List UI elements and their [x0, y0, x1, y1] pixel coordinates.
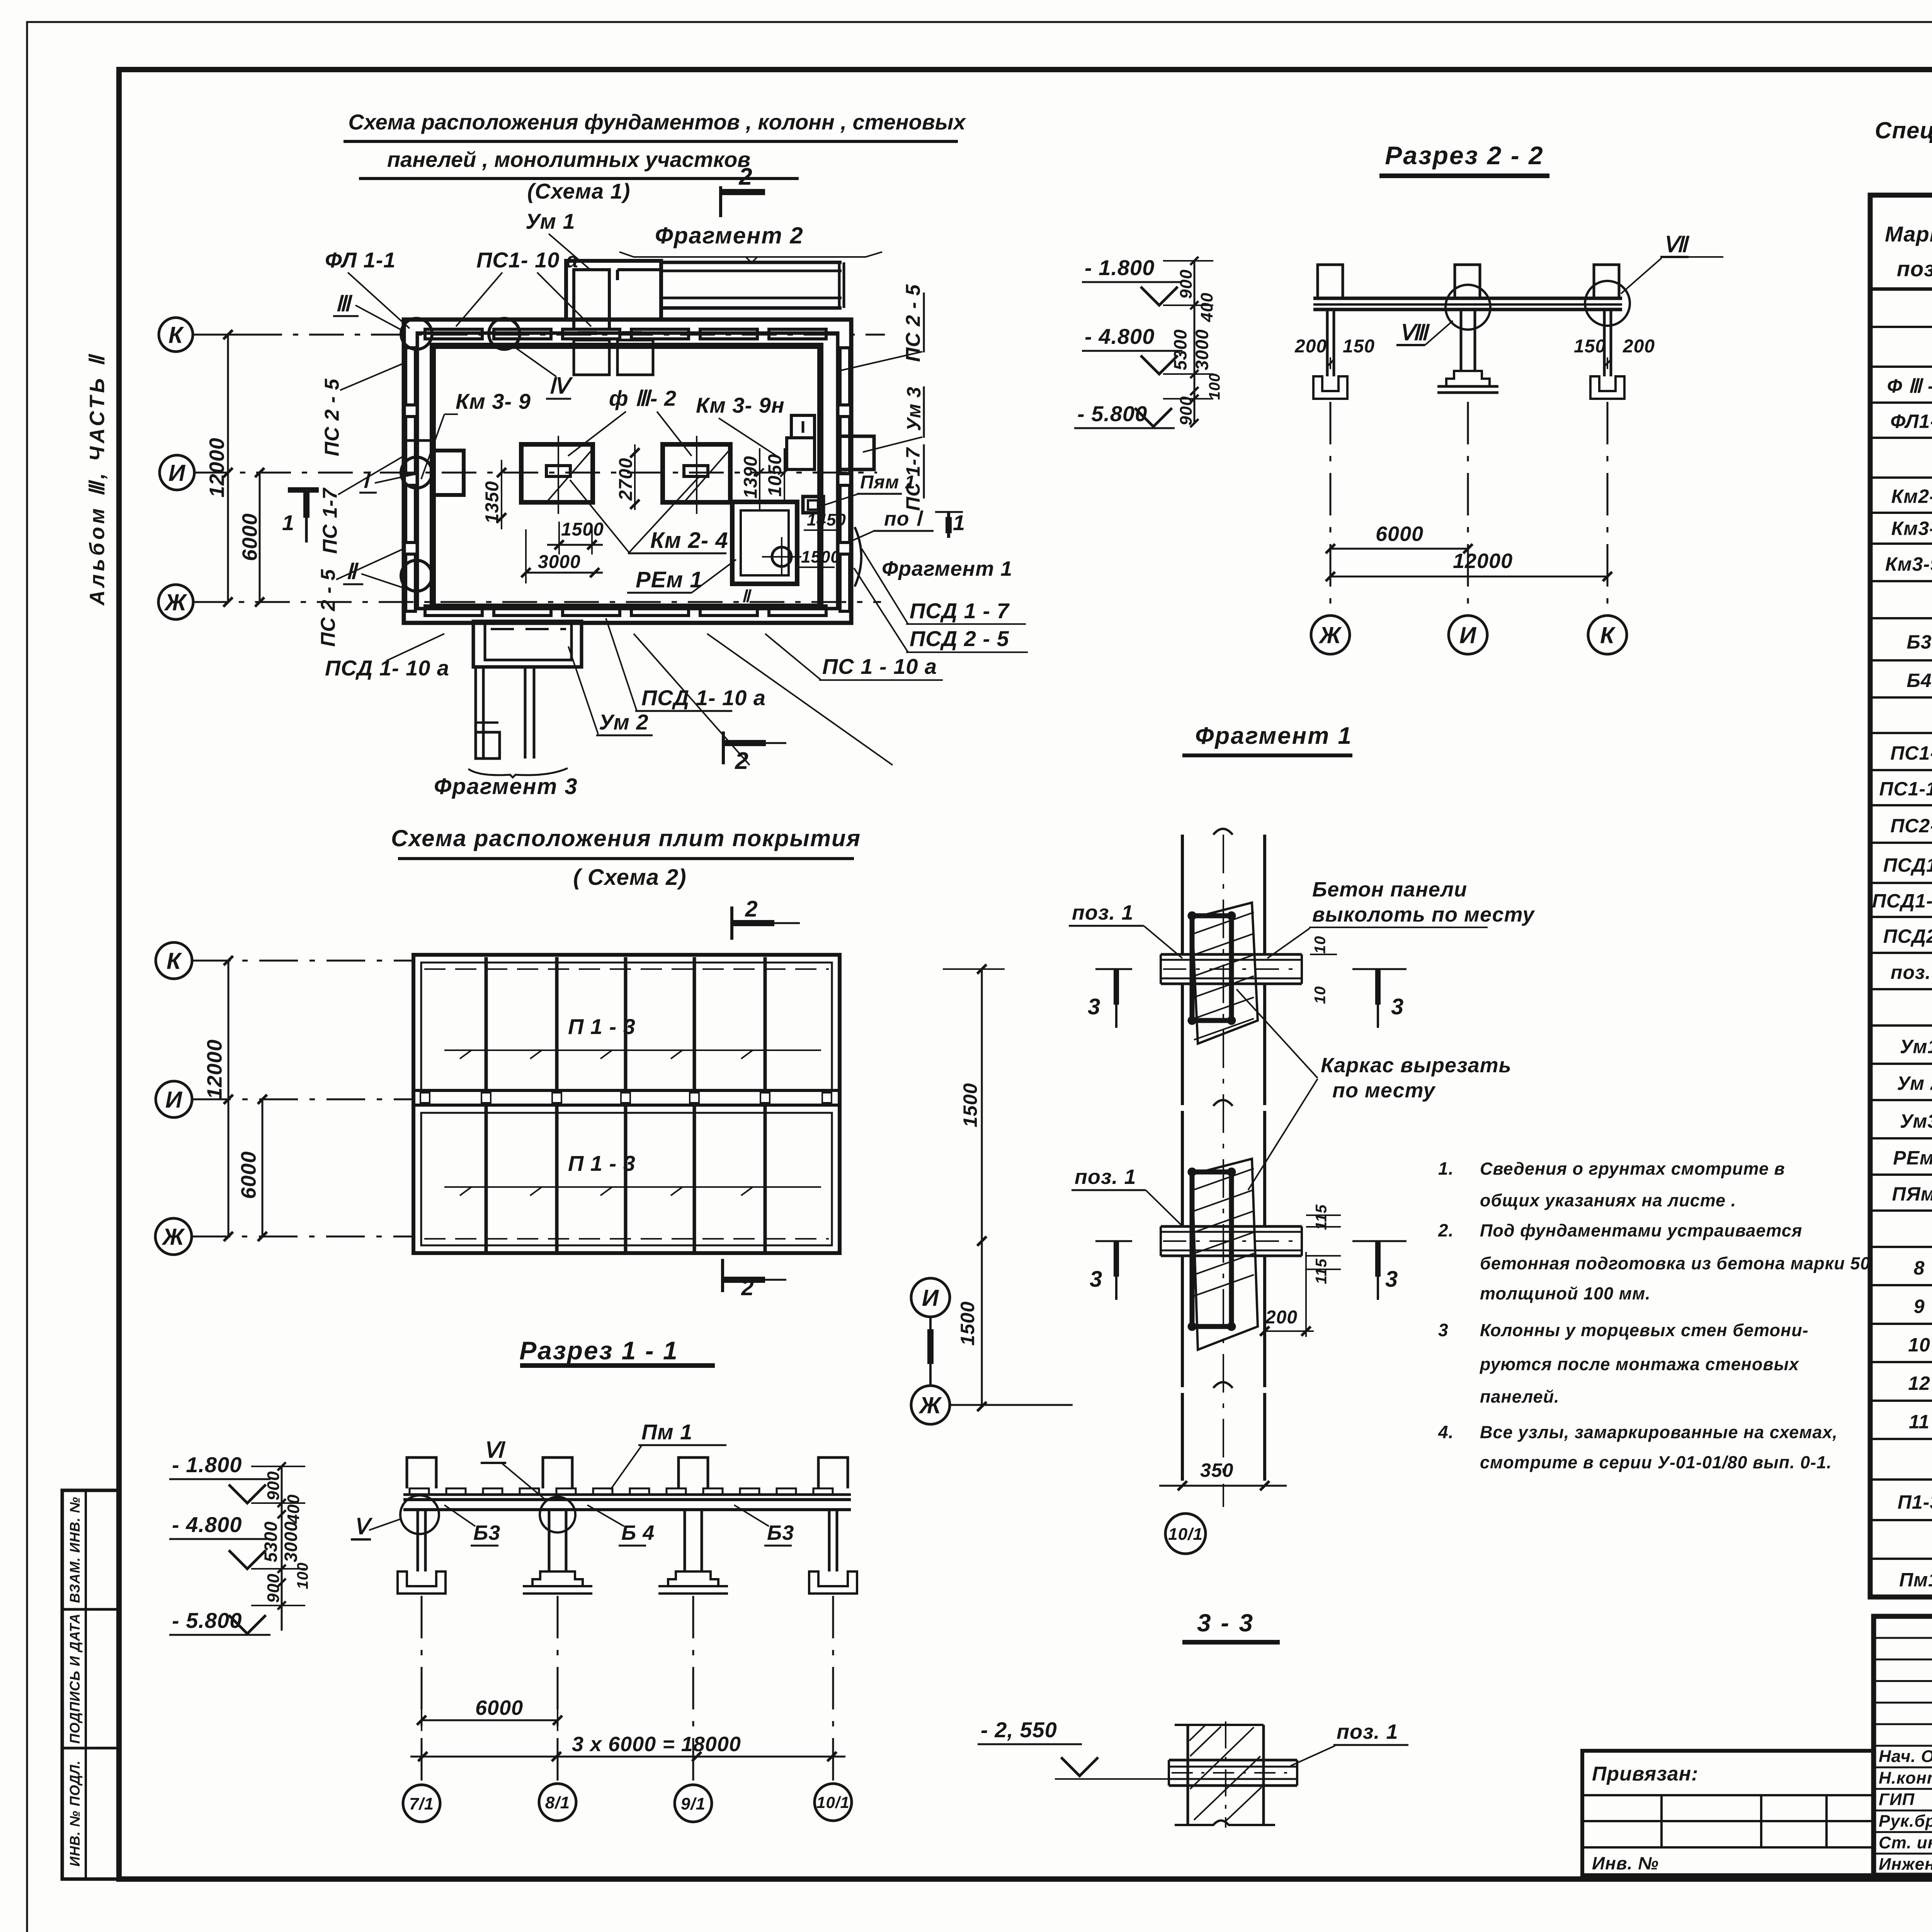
detail circles r1	[400, 1495, 439, 1534]
section mark 2 top (schema 2)	[730, 906, 733, 940]
svg-text:ПСД 1 - 7: ПСД 1 - 7	[910, 599, 1010, 623]
svg-text:Ⅷ: Ⅷ	[1399, 320, 1430, 345]
svg-text:Пям 1: Пям 1	[860, 472, 915, 493]
left wall below beam (Zh)	[1326, 310, 1329, 376]
svg-text:ПС 2 - 5: ПС 2 - 5	[902, 284, 925, 362]
svg-text:Каркас вырезать: Каркас вырезать	[1321, 1054, 1512, 1077]
svg-text:Ф Ⅲ - 2: Ф Ⅲ - 2	[1887, 375, 1932, 397]
svg-text:Ⅵ: Ⅵ	[483, 1438, 506, 1462]
svg-text:Км 3- 9: Км 3- 9	[456, 389, 531, 413]
svg-text:Все узлы, замаркированные на с: Все узлы, замаркированные на схемах,	[1480, 1422, 1838, 1442]
section mark 1 left	[288, 487, 319, 493]
svg-text:И: И	[922, 1285, 939, 1311]
svg-text:350: 350	[1200, 1459, 1233, 1481]
svg-text:Сведения о грунтах смотрите в: Сведения о грунтах смотрите в	[1480, 1159, 1785, 1179]
wall stubs r1	[407, 1458, 436, 1488]
svg-text:П 1 - 3: П 1 - 3	[568, 1014, 636, 1039]
section marks 3 (lower pair)	[1095, 1240, 1132, 1242]
svg-text:10/1: 10/1	[816, 1793, 850, 1811]
section mark 2 top	[719, 186, 722, 217]
svg-text:поз. 1: поз. 1	[1075, 1165, 1136, 1189]
joint beam band	[1161, 953, 1302, 956]
axis I schema2	[156, 1081, 192, 1117]
corridor rails right of top extension	[661, 261, 842, 264]
svg-text:1500: 1500	[959, 1083, 981, 1127]
svg-text:ГИП: ГИП	[1879, 1790, 1915, 1809]
column footing F III-2 left	[521, 444, 593, 502]
svg-text:400: 400	[1197, 293, 1216, 322]
axes to circles r1	[421, 1596, 423, 1784]
svg-text:бетонная подготовка из бетона: бетонная подготовка из бетона марки 50	[1480, 1253, 1870, 1273]
svg-text:РЕм1: РЕм1	[1893, 1147, 1932, 1169]
svg-text:Разрез 1 - 1: Разрез 1 - 1	[519, 1336, 679, 1365]
joint beam band	[1161, 1225, 1302, 1228]
svg-text:2: 2	[735, 748, 748, 774]
svg-text:И: И	[168, 460, 186, 486]
svg-text:10/1: 10/1	[1168, 1525, 1203, 1544]
3-3 beam band	[1169, 1759, 1297, 1762]
svg-text:Км 2- 4: Км 2- 4	[650, 528, 728, 553]
svg-text:150: 150	[1574, 336, 1606, 357]
circle 10/1 fragment	[1165, 1514, 1206, 1554]
section 2-2 beam	[1313, 297, 1622, 300]
fragment 3 shaft	[474, 667, 477, 759]
svg-text:2: 2	[745, 896, 758, 922]
table outer border	[1870, 195, 1932, 1597]
svg-text:Ум 2: Ум 2	[1897, 1073, 1932, 1094]
svg-text:900: 900	[264, 1471, 283, 1500]
privyazan block	[1582, 1751, 1874, 1875]
svg-text:Б4: Б4	[1906, 670, 1932, 691]
svg-text:400: 400	[284, 1494, 303, 1524]
svg-text:К: К	[168, 322, 184, 348]
table row lines	[1870, 326, 1932, 328]
svg-text:10: 10	[1311, 986, 1328, 1004]
svg-text:Км3-9: Км3-9	[1891, 518, 1932, 539]
svg-text:Разрез 2 - 2: Разрез 2 - 2	[1385, 141, 1544, 170]
wall panels bottom	[425, 606, 482, 616]
svg-text:( Схема 2): ( Схема 2)	[573, 865, 686, 890]
middle band	[413, 1089, 840, 1092]
axis Zh	[158, 585, 193, 619]
detail circle VIII	[1446, 285, 1490, 330]
svg-text:РЕм 1: РЕм 1	[636, 567, 703, 592]
svg-text:5300: 5300	[261, 1521, 281, 1562]
svg-text:- 4.800: - 4.800	[172, 1512, 242, 1537]
svg-text:по Ⅰ: по Ⅰ	[884, 508, 923, 530]
svg-text:100: 100	[294, 1562, 311, 1589]
K U-footing	[1590, 376, 1624, 399]
svg-text:ФЛ 1-1: ФЛ 1-1	[325, 248, 396, 272]
svg-text:Спецификация к схемам распо: Спецификация к схемам расположения конст…	[1875, 117, 1932, 143]
left stamp boxes	[62, 1490, 119, 1879]
svg-text:10: 10	[1908, 1334, 1930, 1355]
small joint marks middle band	[420, 1093, 430, 1103]
center column (I)	[1460, 310, 1463, 371]
rebar cage	[1192, 916, 1231, 1020]
svg-text:Колонны у торцевых стен бетони: Колонны у торцевых стен бетони-	[1480, 1320, 1809, 1340]
svg-text:Ст. инж.: Ст. инж.	[1879, 1833, 1932, 1852]
svg-text:ПСД 2 - 5: ПСД 2 - 5	[910, 626, 1009, 651]
wall stubs above beam	[1318, 265, 1343, 298]
svg-text:Н.контр.: Н.контр.	[1879, 1769, 1932, 1787]
svg-text:ПСД 1- 10 а: ПСД 1- 10 а	[641, 685, 766, 710]
svg-text:панелей.: панелей.	[1480, 1387, 1560, 1406]
pit PYam1	[803, 497, 823, 513]
svg-text:ИНВ. № ПОДЛ.: ИНВ. № ПОДЛ.	[67, 1760, 83, 1866]
dim 12000 schema2	[228, 961, 230, 1236]
slab with teeth r1	[403, 1493, 851, 1496]
svg-text:8: 8	[1914, 1257, 1925, 1279]
beam band r1	[403, 1498, 851, 1501]
svg-text:5300: 5300	[1170, 329, 1190, 370]
svg-text:Ум1: Ум1	[1900, 1036, 1932, 1057]
svg-text:ПЯм1: ПЯм1	[1892, 1183, 1932, 1205]
svg-text:К: К	[167, 948, 182, 974]
svg-text:ПС 1 - 10 а: ПС 1 - 10 а	[822, 654, 937, 679]
svg-text:- 1.800: - 1.800	[172, 1452, 242, 1477]
bottom extension (fragment 3 block Um2)	[473, 621, 582, 667]
svg-text:1390: 1390	[740, 456, 761, 499]
plate grid inner bottom half	[421, 1113, 832, 1245]
axes dash-dot to circles 2-2	[1330, 402, 1332, 616]
top extension (Um1, fragment 2 block)	[566, 261, 661, 320]
axis K schema2	[156, 942, 192, 979]
svg-text:200: 200	[1622, 336, 1655, 357]
wall break marks	[1213, 829, 1233, 835]
svg-text:Привязан:: Привязан:	[1592, 1763, 1698, 1785]
right wall below beam (K)	[1603, 310, 1606, 376]
svg-text:8/1: 8/1	[545, 1793, 570, 1812]
svg-text:1: 1	[953, 510, 965, 535]
svg-text:- 5.800: - 5.800	[1077, 401, 1147, 426]
svg-text:ПСД 1- 10 а: ПСД 1- 10 а	[325, 656, 449, 680]
svg-text:6000: 6000	[238, 513, 261, 561]
footings r1 interior	[532, 1571, 583, 1586]
svg-text:900: 900	[1177, 396, 1196, 425]
svg-text:9/1: 9/1	[681, 1794, 706, 1813]
section mark 1 right	[947, 512, 950, 538]
svg-text:1.: 1.	[1438, 1158, 1454, 1179]
svg-text:Рук.бр.: Рук.бр.	[1879, 1811, 1932, 1830]
svg-text:Пм1: Пм1	[1899, 1569, 1932, 1590]
svg-text:Б3: Б3	[767, 1521, 794, 1544]
svg-text:200: 200	[1294, 336, 1327, 357]
I and Zh circles fragment	[911, 1278, 950, 1317]
3-3 column centerline	[1225, 1721, 1226, 1828]
svg-text:поз. 1: поз. 1	[1891, 962, 1932, 983]
svg-text:Инженер: Инженер	[1879, 1855, 1932, 1874]
corner circles (wall junctions)	[401, 318, 432, 349]
svg-text:1450: 1450	[807, 510, 846, 529]
svg-text:ПС1-7: ПС1-7	[1890, 742, 1932, 764]
svg-text:Нач. ОТП: Нач. ОТП	[1879, 1747, 1932, 1766]
svg-text:3000: 3000	[538, 552, 581, 572]
svg-text:ПС 2 - 5: ПС 2 - 5	[317, 569, 340, 647]
svg-text:И: И	[1459, 622, 1477, 648]
vertical plate dividers	[485, 957, 488, 1089]
svg-text:1500: 1500	[561, 519, 604, 540]
extension inner room	[574, 270, 609, 329]
svg-text:1500: 1500	[801, 548, 840, 566]
svg-text:3: 3	[1385, 1267, 1398, 1292]
svg-text:10: 10	[1311, 936, 1328, 954]
svg-text:ПОДПИСЬ И ДАТА: ПОДПИСЬ И ДАТА	[67, 1613, 83, 1744]
svg-text:П1-3: П1-3	[1898, 1492, 1932, 1513]
section marks 3 (upper pair)	[1095, 968, 1132, 970]
svg-text:11: 11	[1909, 1411, 1930, 1432]
svg-text:Схема расположения фундаментов: Схема расположения фундаментов , колонн …	[348, 110, 966, 134]
svg-text:поз. 1: поз. 1	[1337, 1720, 1398, 1743]
Um3 block right	[839, 436, 874, 469]
svg-text:9: 9	[1914, 1296, 1925, 1317]
svg-text:ПС2-5: ПС2-5	[1890, 815, 1932, 837]
detail circle VII	[1585, 281, 1630, 326]
svg-text:ПСД1-7: ПСД1-7	[1883, 854, 1932, 876]
svg-text:Фрагмент 3: Фрагмент 3	[434, 774, 578, 799]
axis circles 2-2	[1311, 616, 1350, 654]
svg-text:6000: 6000	[475, 1696, 523, 1719]
title block left rows	[1874, 1637, 1932, 1639]
svg-text:3000: 3000	[281, 1521, 301, 1562]
3-3 column hatched	[1187, 1725, 1189, 1825]
svg-text:2.: 2.	[1438, 1220, 1454, 1240]
svg-text:Ж: Ж	[1318, 622, 1342, 648]
section mark 2 bottom	[722, 731, 725, 764]
table header separator	[1870, 287, 1932, 291]
wall panels left	[406, 348, 415, 405]
svg-text:3000: 3000	[1192, 329, 1212, 370]
vertical dim chain 2-2	[1194, 261, 1196, 423]
svg-text:3: 3	[1438, 1320, 1449, 1340]
wall panels right	[840, 348, 850, 405]
svg-text:Км3-9н: Км3-9н	[1885, 553, 1932, 575]
svg-text:Ум 2: Ум 2	[599, 710, 649, 734]
svg-text:ВЗАМ. ИНВ. №: ВЗАМ. ИНВ. №	[67, 1497, 83, 1603]
svg-text:общих указаниях на листе .: общих указаниях на листе .	[1480, 1190, 1736, 1210]
svg-text:3 - 3: 3 - 3	[1197, 1609, 1254, 1637]
svg-text:ПС 1-7: ПС 1-7	[319, 488, 342, 554]
svg-text:Бетон панели: Бетон панели	[1312, 878, 1467, 901]
Zh U-footing	[1313, 376, 1347, 399]
svg-text:3 х 6000 = 18000: 3 х 6000 = 18000	[572, 1733, 741, 1756]
axis circles r1	[403, 1785, 440, 1822]
svg-text:- 4.800: - 4.800	[1085, 324, 1155, 349]
svg-text:Ⅲ: Ⅲ	[335, 291, 353, 316]
svg-text:Марка: Марка	[1885, 222, 1932, 246]
svg-text:И: И	[165, 1087, 183, 1113]
svg-text:150: 150	[1343, 336, 1375, 357]
svg-text:Фрагмент 1: Фрагмент 1	[882, 557, 1012, 580]
columns r1	[548, 1510, 551, 1571]
svg-text:Км2-4: Км2-4	[1891, 486, 1932, 507]
svg-text:ФЛ1-1: ФЛ1-1	[1890, 411, 1932, 432]
inner room thick outline	[433, 346, 820, 607]
svg-text:12000: 12000	[203, 1039, 226, 1099]
svg-text:Схема расположения плит покрыт: Схема расположения плит покрытия	[391, 825, 861, 851]
end walls r1	[417, 1510, 419, 1571]
I column footing steps	[1446, 371, 1490, 386]
fragment center axis	[1223, 835, 1224, 1507]
svg-text:П 1 - 3: П 1 - 3	[568, 1151, 636, 1175]
svg-text:Км 3- 9н: Км 3- 9н	[696, 393, 785, 417]
left protrusion at axis I	[433, 451, 464, 495]
svg-text:3: 3	[1088, 994, 1100, 1019]
svg-text:3: 3	[1391, 994, 1404, 1019]
svg-text:2: 2	[741, 1275, 754, 1300]
svg-text:Инв. №: Инв. №	[1592, 1853, 1659, 1873]
svg-text:6000: 6000	[237, 1151, 260, 1199]
svg-text:Фрагмент 1: Фрагмент 1	[1195, 723, 1352, 749]
vertical dim chain r1	[281, 1466, 283, 1631]
svg-text:ПСД1-10а: ПСД1-10а	[1872, 890, 1932, 912]
svg-text:Фрагмент 2: Фрагмент 2	[655, 223, 804, 248]
svg-text:200: 200	[1265, 1307, 1298, 1328]
axis K	[159, 318, 193, 352]
svg-text:2: 2	[738, 163, 752, 190]
svg-text:Пм 1: Пм 1	[641, 1420, 692, 1444]
svg-text:ПС1- 10 а: ПС1- 10 а	[476, 248, 578, 272]
svg-text:12: 12	[1908, 1372, 1930, 1394]
svg-text:выколоть по месту: выколоть по месту	[1312, 903, 1535, 926]
title block outer	[1874, 1616, 1932, 1875]
svg-text:(Схема 1): (Схема 1)	[527, 179, 631, 203]
svg-text:руются после монтажа стеновых: руются после монтажа стеновых	[1480, 1354, 1799, 1374]
svg-text:- 2, 550: - 2, 550	[981, 1718, 1057, 1742]
REm1 inner dashed	[741, 510, 789, 575]
joint hatched panel	[1192, 903, 1258, 1044]
svg-text:Ум 3: Ум 3	[903, 386, 925, 431]
svg-text:толщиной 100 мм.: толщиной 100 мм.	[1480, 1284, 1651, 1303]
svg-text:- 5.800: - 5.800	[172, 1608, 242, 1633]
svg-text:смотрите в серии У-01-01/80 вы: смотрите в серии У-01-01/80 вып. 0-1.	[1480, 1452, 1832, 1472]
svg-text:Ⅶ: Ⅶ	[1663, 232, 1690, 257]
svg-text:панелей , монолитных участко: панелей , монолитных участков	[387, 147, 750, 172]
svg-text:Ж: Ж	[918, 1393, 942, 1418]
svg-text:поз.: поз.	[1897, 257, 1932, 281]
dim 6000 schema2	[262, 1099, 264, 1236]
extension lower rooms	[574, 340, 609, 375]
svg-text:12000: 12000	[205, 437, 228, 497]
svg-text:ф Ⅲ- 2: ф Ⅲ- 2	[609, 386, 677, 410]
svg-text:К: К	[1600, 622, 1616, 648]
plate grid outer	[413, 955, 840, 1253]
svg-text:1350: 1350	[482, 481, 502, 524]
wall panels top	[425, 329, 482, 339]
svg-text:Ум 1: Ум 1	[526, 209, 575, 233]
svg-text:6000: 6000	[1376, 522, 1423, 546]
joint hatched panel	[1192, 1159, 1258, 1350]
plate grid inner dashed top half	[421, 963, 832, 1090]
svg-text:7/1: 7/1	[409, 1794, 434, 1813]
svg-text:по месту: по месту	[1332, 1079, 1436, 1102]
svg-text:3: 3	[1090, 1267, 1102, 1292]
reservoir REm1	[732, 502, 797, 584]
svg-text:поз. 1: поз. 1	[1072, 901, 1134, 924]
Km3-9n blocks	[791, 415, 815, 438]
fragment left dim 1500/1500	[981, 969, 983, 1406]
svg-text:Ж: Ж	[164, 590, 188, 616]
svg-text:Под фундаментами устраивается: Под фундаментами устраивается	[1480, 1221, 1802, 1240]
svg-text:Ж: Ж	[162, 1224, 185, 1250]
section mark 2 bottom (schema2)	[721, 1259, 724, 1292]
building outer wall	[404, 320, 851, 623]
axis Zh schema2	[155, 1218, 192, 1255]
dim 12000	[227, 335, 229, 602]
svg-text:900: 900	[1177, 269, 1196, 299]
svg-text:Ум3: Ум3	[1900, 1110, 1932, 1132]
svg-text:12000: 12000	[1453, 549, 1513, 573]
svg-text:4.: 4.	[1438, 1422, 1454, 1442]
svg-text:Альбом Ⅲ, ЧАСТЬ Ⅱ: Альбом Ⅲ, ЧАСТЬ Ⅱ	[85, 353, 109, 606]
footing cross ticks	[558, 436, 559, 514]
column footing F III-2 right	[663, 444, 730, 502]
dim 6000	[259, 473, 261, 602]
svg-text:- 1.800: - 1.800	[1085, 255, 1155, 280]
svg-text:115: 115	[1313, 1259, 1330, 1284]
svg-text:2700: 2700	[616, 458, 636, 501]
rebar cage	[1192, 1172, 1231, 1327]
svg-text:Б 4: Б 4	[621, 1521, 655, 1544]
footings r1 ends (U-channels)	[398, 1571, 446, 1594]
building inner wall line	[417, 333, 838, 609]
svg-text:1: 1	[282, 510, 294, 535]
svg-text:Б3: Б3	[473, 1521, 500, 1544]
svg-text:ПСД2-5: ПСД2-5	[1883, 925, 1932, 947]
svg-text:1500: 1500	[957, 1301, 978, 1345]
svg-text:100: 100	[1206, 373, 1223, 400]
svg-text:Б3: Б3	[1906, 631, 1932, 653]
fragment wall verticals	[1181, 835, 1184, 955]
svg-text:ПС1-10а: ПС1-10а	[1879, 778, 1932, 800]
svg-text:900: 900	[264, 1573, 283, 1603]
axis I	[160, 455, 194, 490]
